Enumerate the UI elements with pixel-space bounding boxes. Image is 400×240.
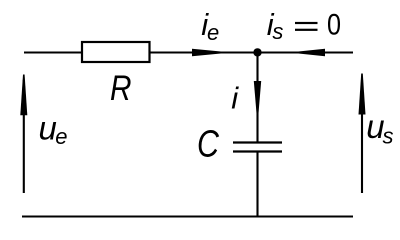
svg-text:i: i <box>231 81 239 116</box>
wire bottom rail <box>22 215 353 217</box>
svg-text:e: e <box>207 20 219 45</box>
svg-text:s: s <box>383 123 394 148</box>
wire top-right segment <box>150 51 354 53</box>
voltage arrow ue shaft <box>23 80 25 193</box>
svg-text:s: s <box>272 19 283 44</box>
voltage arrow us head <box>359 74 366 115</box>
wire capacitor to bottom <box>256 152 258 218</box>
current arrow ie head <box>192 49 224 56</box>
svg-text:R: R <box>110 69 131 108</box>
resistor R <box>82 42 150 62</box>
current arrow is head <box>296 49 325 56</box>
capacitor C bottom plate <box>233 150 282 152</box>
current arrow i head (down) <box>254 81 261 116</box>
node junction dot <box>253 48 261 56</box>
voltage arrow ue head <box>20 75 27 116</box>
wire top-left lead <box>24 51 82 53</box>
svg-text:u: u <box>39 110 57 147</box>
voltage arrow us shaft <box>361 80 363 193</box>
svg-text:0: 0 <box>327 8 341 42</box>
wire node to capacitor <box>256 53 258 143</box>
svg-text:C: C <box>197 123 220 165</box>
svg-text:e: e <box>55 124 67 149</box>
capacitor C top plate <box>233 141 282 143</box>
